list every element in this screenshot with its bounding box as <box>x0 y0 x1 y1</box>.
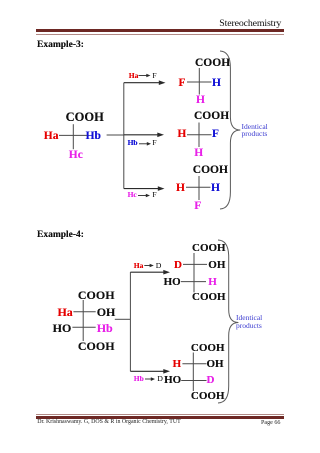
arrowhead small ha-d <box>150 264 154 268</box>
arrow ex4 bottom branch shaft <box>130 370 164 372</box>
bond ex4-left row1 <box>73 311 95 313</box>
label H s2 left <box>177 129 186 141</box>
arrow small ha-d shaft <box>144 265 150 267</box>
label HO s4a left <box>164 277 181 288</box>
arrow ex3 bottom branch shaft <box>124 188 159 190</box>
label Ha ex3-left <box>44 131 59 143</box>
label D s4b right <box>207 375 215 386</box>
arrowhead small hb-d <box>151 377 155 381</box>
label H s3 left <box>176 183 185 195</box>
label HO s4b left <box>164 375 181 386</box>
bond s3 vertical <box>198 176 200 200</box>
label Identical products ex3 <box>242 123 268 138</box>
arrowhead small hc-f <box>146 194 150 198</box>
arrowhead ex4 bottom <box>163 369 170 374</box>
label H s2 bottom <box>194 148 203 160</box>
bond ex3-left horizontal <box>59 134 87 136</box>
Ex4 branch small label Hb->D <box>134 375 144 383</box>
arrowhead small ha-f <box>146 74 150 78</box>
brace ex3 <box>220 51 240 209</box>
Ex4 branch small label Ha->D <box>134 262 144 270</box>
bond s4b row2 <box>181 380 206 382</box>
arrowhead ex3 bottom <box>158 186 165 191</box>
label Hb ex4-left <box>97 322 113 334</box>
label F s3 bottom <box>194 201 201 213</box>
arrowhead ex3 middle <box>157 133 164 138</box>
arrowhead ex4 top <box>163 270 170 275</box>
label Hc ex3-left <box>69 150 83 162</box>
label F s1 left <box>178 78 185 90</box>
label COOH ex4-left top <box>78 289 115 301</box>
bond s3 horizontal <box>186 186 211 188</box>
label H s1 right <box>212 78 221 90</box>
label COOH s2 <box>194 111 229 123</box>
arrowhead small hb-f <box>147 142 151 146</box>
wire ex4 branch vertical <box>129 272 131 371</box>
bond ex4-left vertical <box>82 300 84 341</box>
footer rule thick <box>36 416 284 418</box>
label Hb ex3-left <box>86 131 101 143</box>
label COOH s4a top <box>192 243 226 254</box>
bond s4a row1 <box>183 263 207 265</box>
bond ex4-left row2 <box>72 326 95 328</box>
label COOH s3 <box>193 165 228 177</box>
label COOH s1 <box>195 58 230 70</box>
label H s1 bottom <box>196 95 205 107</box>
label OH s4a right <box>208 260 225 271</box>
footer text left <box>37 420 181 426</box>
label OH s4b right <box>207 359 224 370</box>
label H s3 right <box>211 183 220 195</box>
footer text page number <box>261 420 280 426</box>
brace ex4 <box>218 240 238 403</box>
wire ex3 branch vertical <box>123 83 125 189</box>
label COOH s4a bottom <box>192 292 226 303</box>
label COOH s4b bottom <box>191 391 225 402</box>
arrow small hb-f shaft <box>139 143 148 145</box>
arrow ex3 top branch shaft <box>124 82 160 84</box>
label COOH ex4-left bottom <box>78 340 115 352</box>
arrow small hb-d shaft <box>145 378 152 380</box>
arrow small ha-f shaft <box>139 75 148 77</box>
Ex3 branch small label Ha->F <box>129 72 139 80</box>
bond s4b vertical <box>192 353 194 392</box>
label Ha ex4-left <box>57 306 72 318</box>
Ex3 branch small label Hc->F <box>128 191 137 199</box>
bond s4b row1 <box>182 363 206 365</box>
footer rule thin <box>36 413 284 416</box>
bond s1 horizontal <box>187 81 212 83</box>
wire ex4 connector <box>115 318 131 320</box>
arrowhead ex3 top <box>159 80 166 85</box>
header rule thick <box>36 29 284 32</box>
label OH ex4-left <box>97 306 116 318</box>
bond s2 horizontal <box>187 134 212 136</box>
Ex3 branch small label Hb->F <box>128 139 138 147</box>
bond s4a vertical <box>193 253 195 292</box>
arrow small hc-f shaft <box>138 195 147 197</box>
header text Stereochemistry <box>219 19 281 29</box>
label Identical products ex4 <box>236 314 262 329</box>
heading Example-3 <box>37 41 84 51</box>
bond s4a row2 <box>181 281 206 283</box>
bond s2 vertical <box>198 123 200 148</box>
arrow ex3 middle branch shaft <box>124 134 158 136</box>
label COOH s4b top <box>191 343 225 354</box>
arrow ex4 top branch shaft <box>130 271 164 273</box>
label F s2 right <box>212 129 219 141</box>
label H s4a right <box>208 277 217 288</box>
label D s4a left <box>174 260 182 271</box>
wire ex3 connector from Hb to branch <box>107 134 124 136</box>
label H s4b left <box>173 359 182 370</box>
bond s1 vertical <box>198 68 200 95</box>
heading Example-4 <box>37 231 84 241</box>
label HO ex4-left <box>53 322 72 334</box>
label COOH ex3-left <box>66 111 104 124</box>
header rule thin <box>36 33 284 36</box>
bond ex3-left vertical <box>72 124 74 149</box>
